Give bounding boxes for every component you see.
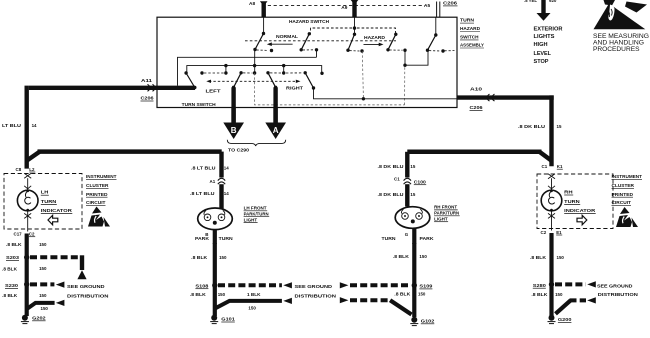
svg-text:TURN: TURN <box>564 199 580 205</box>
wire: B4 contact drop and link to B5 <box>404 50 406 65</box>
svg-text:C8: C8 <box>16 167 22 172</box>
svg-text:PROCEDURES: PROCEDURES <box>593 47 640 53</box>
node: hazard contact B1 top <box>262 32 265 35</box>
svg-text:A: A <box>273 126 279 135</box>
wire: dashed drop from B3 contact to A10 line <box>362 51 363 99</box>
svg-text:SEE MEASURING: SEE MEASURING <box>593 34 649 40</box>
svg-text:K1: K1 <box>557 164 563 169</box>
svg-text:A11: A11 <box>141 78 153 83</box>
svg-text:TO C290: TO C290 <box>228 147 250 152</box>
svg-text:DISTRIBUTION: DISTRIBUTION <box>67 293 109 299</box>
wire: lower branch to ground distribution <box>216 301 282 308</box>
svg-text:PARK: PARK <box>195 236 210 241</box>
node: hazard contact B4 top <box>394 33 397 36</box>
svg-text:PARK/TURN: PARK/TURN <box>434 211 459 216</box>
svg-text:EXTERIOR: EXTERIOR <box>534 26 563 32</box>
svg-text:LH: LH <box>41 190 49 196</box>
svg-text:920: 920 <box>549 0 557 3</box>
svg-text:INSTRUMENT: INSTRUMENT <box>86 174 117 179</box>
svg-text:SWITCH: SWITCH <box>460 34 479 39</box>
icon: ESD warning (top right, large) <box>594 0 649 29</box>
svg-text:15: 15 <box>410 164 415 169</box>
off-page arrow A <box>265 123 286 140</box>
svg-text:A10: A10 <box>470 86 483 91</box>
wire: to ground distribution <box>30 282 54 286</box>
switch blade B5 <box>428 35 436 50</box>
svg-text:.8 BLK: .8 BLK <box>530 255 547 260</box>
wire: incoming lower from ground distribution <box>340 297 349 303</box>
switch blade T2 <box>234 73 242 88</box>
node: hazard contact B2 top <box>308 32 311 35</box>
brace TO C290 <box>227 140 285 146</box>
wire: A11 run to left edge and down <box>29 86 157 90</box>
turn/hazard switch assembly box <box>157 17 457 107</box>
svg-text:HAZARD: HAZARD <box>460 26 481 31</box>
wire: dashed link A9 to B2 top <box>311 28 353 33</box>
svg-text:CIRCUIT: CIRCUIT <box>612 200 632 205</box>
svg-text:LIGHT: LIGHT <box>434 216 448 221</box>
svg-text:B: B <box>231 126 237 135</box>
switch blade T3 <box>268 73 276 88</box>
lamp: RH front park/turn <box>395 207 430 229</box>
svg-text:C100: C100 <box>414 179 427 184</box>
wire: dashed link A9 to B4 top <box>357 28 396 33</box>
svg-text:.8 BLK: .8 BLK <box>191 255 208 260</box>
svg-text:G200: G200 <box>558 317 572 322</box>
wire: A8 drop inside box <box>263 17 265 33</box>
node: H2 taps <box>224 64 227 67</box>
svg-text:G101: G101 <box>221 317 235 322</box>
wire: S203 branch to up-arrow <box>30 255 78 259</box>
wire: dashed travel line with arrows <box>209 80 298 82</box>
svg-text:DISTRIBUTION: DISTRIBUTION <box>598 292 639 298</box>
svg-text:SEE GROUND: SEE GROUND <box>597 283 633 289</box>
svg-text:TURN: TURN <box>41 199 57 205</box>
svg-text:150: 150 <box>219 255 227 260</box>
off-page arrow B <box>223 123 244 140</box>
lamp: LH turn indicator <box>17 190 38 211</box>
svg-text:A1: A1 <box>210 179 216 184</box>
svg-text:.8 BLK: .8 BLK <box>2 293 18 298</box>
svg-text:PRINTED: PRINTED <box>612 192 634 197</box>
splice S203 <box>24 255 29 260</box>
node A9 junction <box>354 17 356 28</box>
wire: bus H2 <box>187 66 322 74</box>
wire A11 feed (lt blu) <box>157 86 195 90</box>
outline arrow (right) <box>577 215 587 225</box>
svg-text:INSTRUMENT: INSTRUMENT <box>612 174 643 179</box>
svg-text:C206: C206 <box>470 105 483 110</box>
splice S109 <box>412 283 417 288</box>
svg-text:A5: A5 <box>424 3 430 9</box>
svg-text:15: 15 <box>410 192 415 197</box>
svg-text:150: 150 <box>557 255 565 260</box>
connector A8 stub <box>262 2 266 17</box>
pc-board connection marks <box>24 173 31 178</box>
svg-text:A9: A9 <box>341 5 347 11</box>
switch blade B3 <box>348 34 355 50</box>
wire: A5 drop inside box <box>435 17 437 35</box>
svg-text:HAZARD SWITCH: HAZARD SWITCH <box>289 19 329 24</box>
svg-text:DISTRIBUTION: DISTRIBUTION <box>295 293 337 299</box>
ground G202 <box>22 315 28 321</box>
svg-text:CIRCUIT: CIRCUIT <box>86 200 106 205</box>
wire: RH indicator ground drop <box>549 233 553 316</box>
svg-text:LIGHTS: LIGHTS <box>534 34 555 40</box>
svg-text:HIGH: HIGH <box>534 42 548 48</box>
svg-text:S230: S230 <box>5 283 19 288</box>
svg-text:CLUSTER: CLUSTER <box>86 183 109 188</box>
svg-text:RIGHT: RIGHT <box>286 86 303 91</box>
svg-text:INDICATOR: INDICATOR <box>564 208 596 214</box>
svg-text:150: 150 <box>218 292 226 297</box>
svg-text:C206: C206 <box>141 96 154 101</box>
svg-text:150: 150 <box>39 266 47 271</box>
svg-text:C2: C2 <box>29 232 35 237</box>
wire: RH front ground drop <box>412 243 416 317</box>
svg-text:.8 BLK: .8 BLK <box>190 292 207 297</box>
svg-text:150: 150 <box>418 291 426 296</box>
svg-text:PARK: PARK <box>420 236 435 241</box>
instrument cluster dashed box (left) <box>4 174 82 230</box>
svg-text:.8 BLK: .8 BLK <box>2 266 18 271</box>
svg-text:.8 DK BLU: .8 DK BLU <box>518 124 545 129</box>
svg-text:S203: S203 <box>6 255 20 260</box>
svg-text:RH FRONT: RH FRONT <box>434 205 457 210</box>
svg-text:G202: G202 <box>32 315 46 320</box>
svg-text:14: 14 <box>32 123 37 128</box>
svg-text:1 BLK: 1 BLK <box>247 292 261 297</box>
svg-text:.8 BLK: .8 BLK <box>394 291 411 296</box>
svg-text:.8 BLK: .8 BLK <box>531 292 548 297</box>
svg-text:.8 DK BLU: .8 DK BLU <box>378 192 404 197</box>
switch blade T1 (left turn) <box>186 73 195 88</box>
svg-text:LH FRONT: LH FRONT <box>244 206 267 211</box>
wire: to ground distribution <box>218 283 282 287</box>
svg-text:.8 BLK: .8 BLK <box>6 242 22 247</box>
node: hazard contact B5 top <box>434 33 437 36</box>
svg-text:LT BLU: LT BLU <box>2 123 21 128</box>
svg-text:CLUSTER: CLUSTER <box>612 183 635 188</box>
wire: to ground distribution <box>555 282 586 286</box>
svg-text:C1: C1 <box>394 177 400 182</box>
svg-text:TURN: TURN <box>219 236 233 241</box>
svg-text:S108: S108 <box>195 283 209 288</box>
svg-text:TURN: TURN <box>460 18 475 23</box>
svg-text:.8 YEL: .8 YEL <box>524 0 537 3</box>
connector A1 <box>218 178 225 184</box>
wire: T4 output to A10 <box>314 88 458 99</box>
ground G200 <box>549 315 555 321</box>
svg-text:14: 14 <box>224 165 229 170</box>
svg-text:HAZARD: HAZARD <box>364 35 386 40</box>
pc-board connection marks <box>548 174 555 179</box>
wire: right-turn output to A <box>273 87 277 108</box>
switch blade B4 <box>388 34 396 50</box>
wire: dashed U link row to B4 leg <box>255 73 405 105</box>
contact row nodes <box>184 71 187 74</box>
svg-text:AND HANDLING: AND HANDLING <box>593 41 644 47</box>
wire: B2 contact riser to H1 <box>316 50 318 58</box>
wire: riser from blade B1 down to contact row <box>254 50 256 74</box>
svg-text:15: 15 <box>557 124 562 129</box>
wire: incoming from ground distribution <box>340 282 349 288</box>
svg-text:STOP: STOP <box>534 59 549 65</box>
svg-text:TURN SWITCH: TURN SWITCH <box>182 102 216 107</box>
wire: LH front lamp ground drop <box>213 229 217 244</box>
connector A11/C206 <box>148 84 156 91</box>
svg-text:C17: C17 <box>14 232 23 237</box>
wire: left-turn output to B <box>231 87 235 108</box>
wire: through indicator <box>551 178 553 190</box>
svg-text:TURN: TURN <box>382 236 396 241</box>
svg-text:SEE GROUND: SEE GROUND <box>295 284 333 290</box>
wire: right horizontal distribution (to RH front lamp) <box>540 152 552 161</box>
icon: ESD warning (right) <box>616 207 638 227</box>
ground G101 <box>211 315 217 321</box>
svg-text:S109: S109 <box>419 284 433 289</box>
connector A10/C206 <box>487 94 495 101</box>
svg-text:ASSEMBLY: ASSEMBLY <box>460 43 485 48</box>
svg-text:LIGHT: LIGHT <box>244 217 258 222</box>
wire: long dashed guide line (hazard row) <box>245 40 396 42</box>
wire: left horizontal distribution (to LH front lamp) <box>27 152 40 161</box>
switch blade T4 (right turn) <box>305 73 313 88</box>
connector A5 / C206 <box>436 2 438 18</box>
wire A10 feed (dk blu) <box>457 95 554 99</box>
svg-text:NORMAL: NORMAL <box>276 34 298 39</box>
svg-text:.8 BLK: .8 BLK <box>393 254 410 259</box>
svg-text:PARK/TURN: PARK/TURN <box>244 211 269 216</box>
wire: lower branch to ground distribution <box>28 303 55 309</box>
wire: bus H1 <box>178 57 317 85</box>
svg-text:E1: E1 <box>556 230 562 235</box>
wire: lower branch from ground distribution <box>556 300 571 313</box>
svg-text:G: G <box>405 232 409 237</box>
svg-text:L2: L2 <box>29 167 35 172</box>
svg-text:.8 DK BLU: .8 DK BLU <box>378 164 404 169</box>
svg-text:LEFT: LEFT <box>206 88 221 93</box>
wire: LH front ground drop <box>213 243 217 316</box>
svg-text:PRINTED: PRINTED <box>86 192 108 197</box>
svg-text:C1: C1 <box>542 164 548 169</box>
wire: LH indicator ground drop <box>25 234 29 317</box>
lamp: RH turn indicator <box>541 190 562 211</box>
svg-text:150: 150 <box>41 306 49 311</box>
icon: ESD warning (left) <box>88 207 110 227</box>
wire: through indicator <box>27 178 29 190</box>
splice S108 <box>212 283 217 288</box>
svg-text:14: 14 <box>224 191 229 196</box>
lamp: LH front park/turn <box>198 208 233 230</box>
svg-text:150: 150 <box>555 292 563 297</box>
switch blade B2 <box>301 34 309 50</box>
wire: contact row dashed links <box>204 72 224 74</box>
wire: RH front lamp ground drop <box>412 228 416 244</box>
node: hazard contact B3 top <box>354 28 356 34</box>
ground G102 <box>411 317 417 323</box>
svg-text:SEE GROUND: SEE GROUND <box>67 284 105 290</box>
splice S280 <box>549 282 554 287</box>
wire: dashed feed bus at top <box>262 5 425 7</box>
outline arrow (left) <box>48 215 58 225</box>
svg-text:150: 150 <box>39 242 47 247</box>
svg-text:G102: G102 <box>421 318 435 323</box>
instrument cluster dashed box (right) <box>537 174 613 229</box>
svg-text:A8: A8 <box>249 1 255 7</box>
svg-text:150: 150 <box>419 254 427 259</box>
svg-text:.8 LT BLU: .8 LT BLU <box>190 191 215 196</box>
connector A9 stub <box>352 0 356 17</box>
svg-text:LEVEL: LEVEL <box>534 51 552 57</box>
svg-text:RH: RH <box>564 190 573 196</box>
svg-text:S280: S280 <box>533 283 547 288</box>
svg-text:.8 LT BLU: .8 LT BLU <box>191 165 216 170</box>
switch blade B1 (normal) <box>255 34 264 50</box>
svg-text:150: 150 <box>39 293 47 298</box>
svg-text:150: 150 <box>248 305 256 310</box>
svg-text:C2: C2 <box>541 230 547 235</box>
svg-text:INDICATOR: INDICATOR <box>41 208 73 214</box>
splice S230 <box>24 282 29 287</box>
connector C1/C100 <box>404 178 411 184</box>
